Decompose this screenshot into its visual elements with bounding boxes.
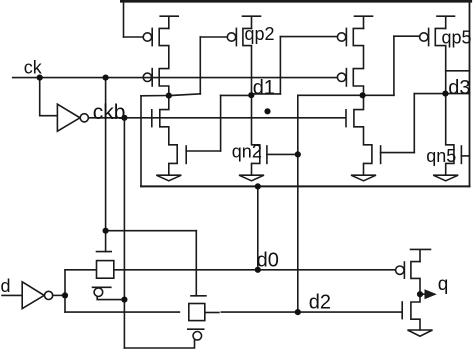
- svg-text:qn5: qn5: [426, 146, 456, 166]
- svg-text:d2: d2: [309, 291, 331, 313]
- svg-text:qp2: qp2: [245, 24, 275, 44]
- svg-text:ck: ck: [24, 58, 43, 78]
- svg-text:d1: d1: [253, 77, 275, 99]
- svg-text:qn2: qn2: [232, 142, 262, 162]
- svg-text:ckb: ckb: [93, 101, 126, 124]
- svg-text:d3: d3: [448, 77, 470, 99]
- svg-text:qp5: qp5: [442, 28, 472, 48]
- svg-text:d: d: [1, 276, 11, 296]
- svg-text:q: q: [438, 274, 449, 295]
- svg-text:d0: d0: [257, 250, 279, 272]
